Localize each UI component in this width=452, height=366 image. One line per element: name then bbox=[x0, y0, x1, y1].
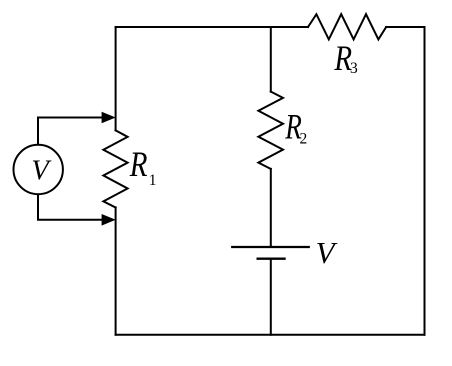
resistor R2 bbox=[258, 92, 283, 169]
svg-text:2: 2 bbox=[300, 131, 308, 148]
svg-text:1: 1 bbox=[149, 172, 157, 189]
resistor R1 bbox=[103, 130, 127, 207]
wire: top side, left segment (top-left corner to R3) bbox=[116, 26, 308, 28]
arrowhead of voltmeter top lead (points to node on R1 branch) bbox=[102, 112, 116, 124]
svg-text:V: V bbox=[31, 156, 52, 187]
wire: voltmeter top lead bbox=[38, 118, 103, 144]
wire: left side, lower segment bbox=[115, 208, 117, 335]
battery V negative plate (short) bbox=[258, 258, 285, 260]
wire: right side bbox=[424, 27, 426, 335]
wire: voltmeter bottom lead bbox=[38, 195, 103, 220]
battery V positive plate (long) bbox=[232, 246, 309, 248]
wire: bottom side bbox=[116, 334, 425, 336]
voltmeter U1 circle bbox=[14, 145, 63, 194]
wire: middle branch, segment from R2 down to battery bbox=[270, 169, 272, 247]
svg-text:V: V bbox=[316, 235, 338, 270]
wire: middle branch, bottom segment (battery to bottom wire) bbox=[270, 259, 272, 335]
svg-text:3: 3 bbox=[350, 60, 358, 77]
svg-text:R: R bbox=[129, 144, 148, 184]
arrowhead of voltmeter bottom lead (points to node on R1 branch) bbox=[102, 214, 116, 226]
wire: left side, upper segment bbox=[115, 27, 117, 130]
wire: top side, right segment (R3 to top-right corner) bbox=[386, 26, 424, 28]
resistor R3 bbox=[308, 14, 386, 39]
wire: middle branch, top segment (node at top wire down to R2) bbox=[270, 27, 272, 92]
